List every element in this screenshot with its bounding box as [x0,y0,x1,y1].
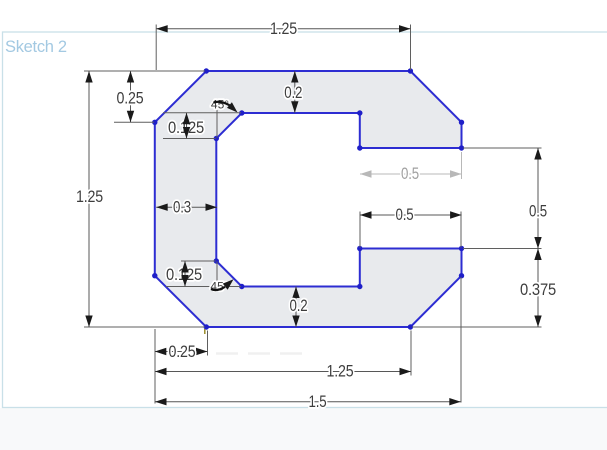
dim 1.25 top [156,28,410,30]
ext 0.25bot right [207,331,209,356]
ext 0.125bot upper [181,260,216,262]
ext 0.125top lower [163,138,216,140]
ext 0.375 bottom [412,326,542,328]
dim 0.125 top overlay line [186,113,188,139]
dim 0.125 bottom overlay line [184,261,186,287]
dimension lines [89,29,538,402]
arrows 0.5 mid [360,211,372,218]
arrows 0.25 topleft [127,71,134,83]
ext left1.25 bottom [84,326,205,328]
ext left1.25 top [84,70,205,72]
dim 0.5 gray [360,173,462,175]
svg-text:Sketch 2: Sketch 2 [5,38,67,56]
coincident constraint tick [204,329,206,334]
dim 1.5 bottom [155,401,461,403]
45deg bottom leader arrow [223,279,234,290]
ext 0.125bot lower [166,286,241,288]
dim 0.3 [156,206,217,208]
dim 0.25 topleft [130,71,132,122]
ext right0.5 mid [463,248,542,250]
svg-text:0.5: 0.5 [396,206,414,224]
dim 0.25 bottom [155,351,208,353]
arrows 0.5 right [534,148,541,160]
ext 0.25 lower [114,121,154,123]
svg-text:0.5: 0.5 [529,203,547,221]
45deg top leader arrow [227,102,238,112]
arrows 0.25 bottom [155,348,167,355]
ext 1.5 right [460,277,462,403]
svg-text:0.2: 0.2 [290,297,308,315]
arrows 1.25 left [85,71,92,83]
arrows 1.25 top [156,25,168,32]
ext top1.25 left [155,25,157,71]
ext bottomleft shared [154,329,156,404]
dim 0.125 bottom [184,261,186,287]
ext top1.25 right [410,25,412,71]
dim 0.375 right [537,249,539,328]
dim 0.125 top [186,113,188,139]
ext 1.25bot right [410,331,412,376]
svg-text:1.25: 1.25 [327,362,354,380]
dim 0.5 mid [360,214,462,216]
ext mid0.5 right [460,212,462,248]
ext right0.5 top [463,147,542,149]
svg-text:0.25: 0.25 [169,343,196,361]
ext 0.125top upper [163,112,241,114]
ext 45top vertical [216,101,218,138]
ext gray0.5 right [461,152,463,179]
dim 1.25 left [88,71,90,327]
arrowheads [85,25,541,405]
svg-text:0.3: 0.3 [173,198,191,216]
arrows 0.375 right [534,249,541,261]
svg-text:1.25: 1.25 [270,20,297,38]
svg-text:0.5: 0.5 [401,165,419,183]
extension lines [84,25,542,404]
ext mid0.5 left [359,212,361,248]
svg-text:0.2: 0.2 [284,84,302,102]
ext 45bot vertical [216,262,218,289]
dim 0.2 top [294,71,296,113]
arrows 1.25 bottom [155,368,167,375]
svg-text:1.25: 1.25 [76,188,103,206]
vertex dots [152,68,464,329]
svg-text:0.375: 0.375 [520,281,556,299]
arrows 1.5 bottom [155,398,167,405]
svg-text:1.5: 1.5 [309,393,327,411]
arrows 0.2 bottom [292,287,299,299]
dim 1.25 bottom [155,371,411,373]
C profile [155,71,462,327]
dim 0.5 right [537,148,539,249]
dim 0.2 bottom [295,287,297,328]
bottom status band [0,408,607,450]
arrows 0.2 top [291,71,298,83]
svg-text:0.25: 0.25 [117,90,144,108]
faint construction dashes [216,352,306,355]
arrows 0.5 gray [360,170,372,177]
arrows 0.3 [156,204,168,211]
